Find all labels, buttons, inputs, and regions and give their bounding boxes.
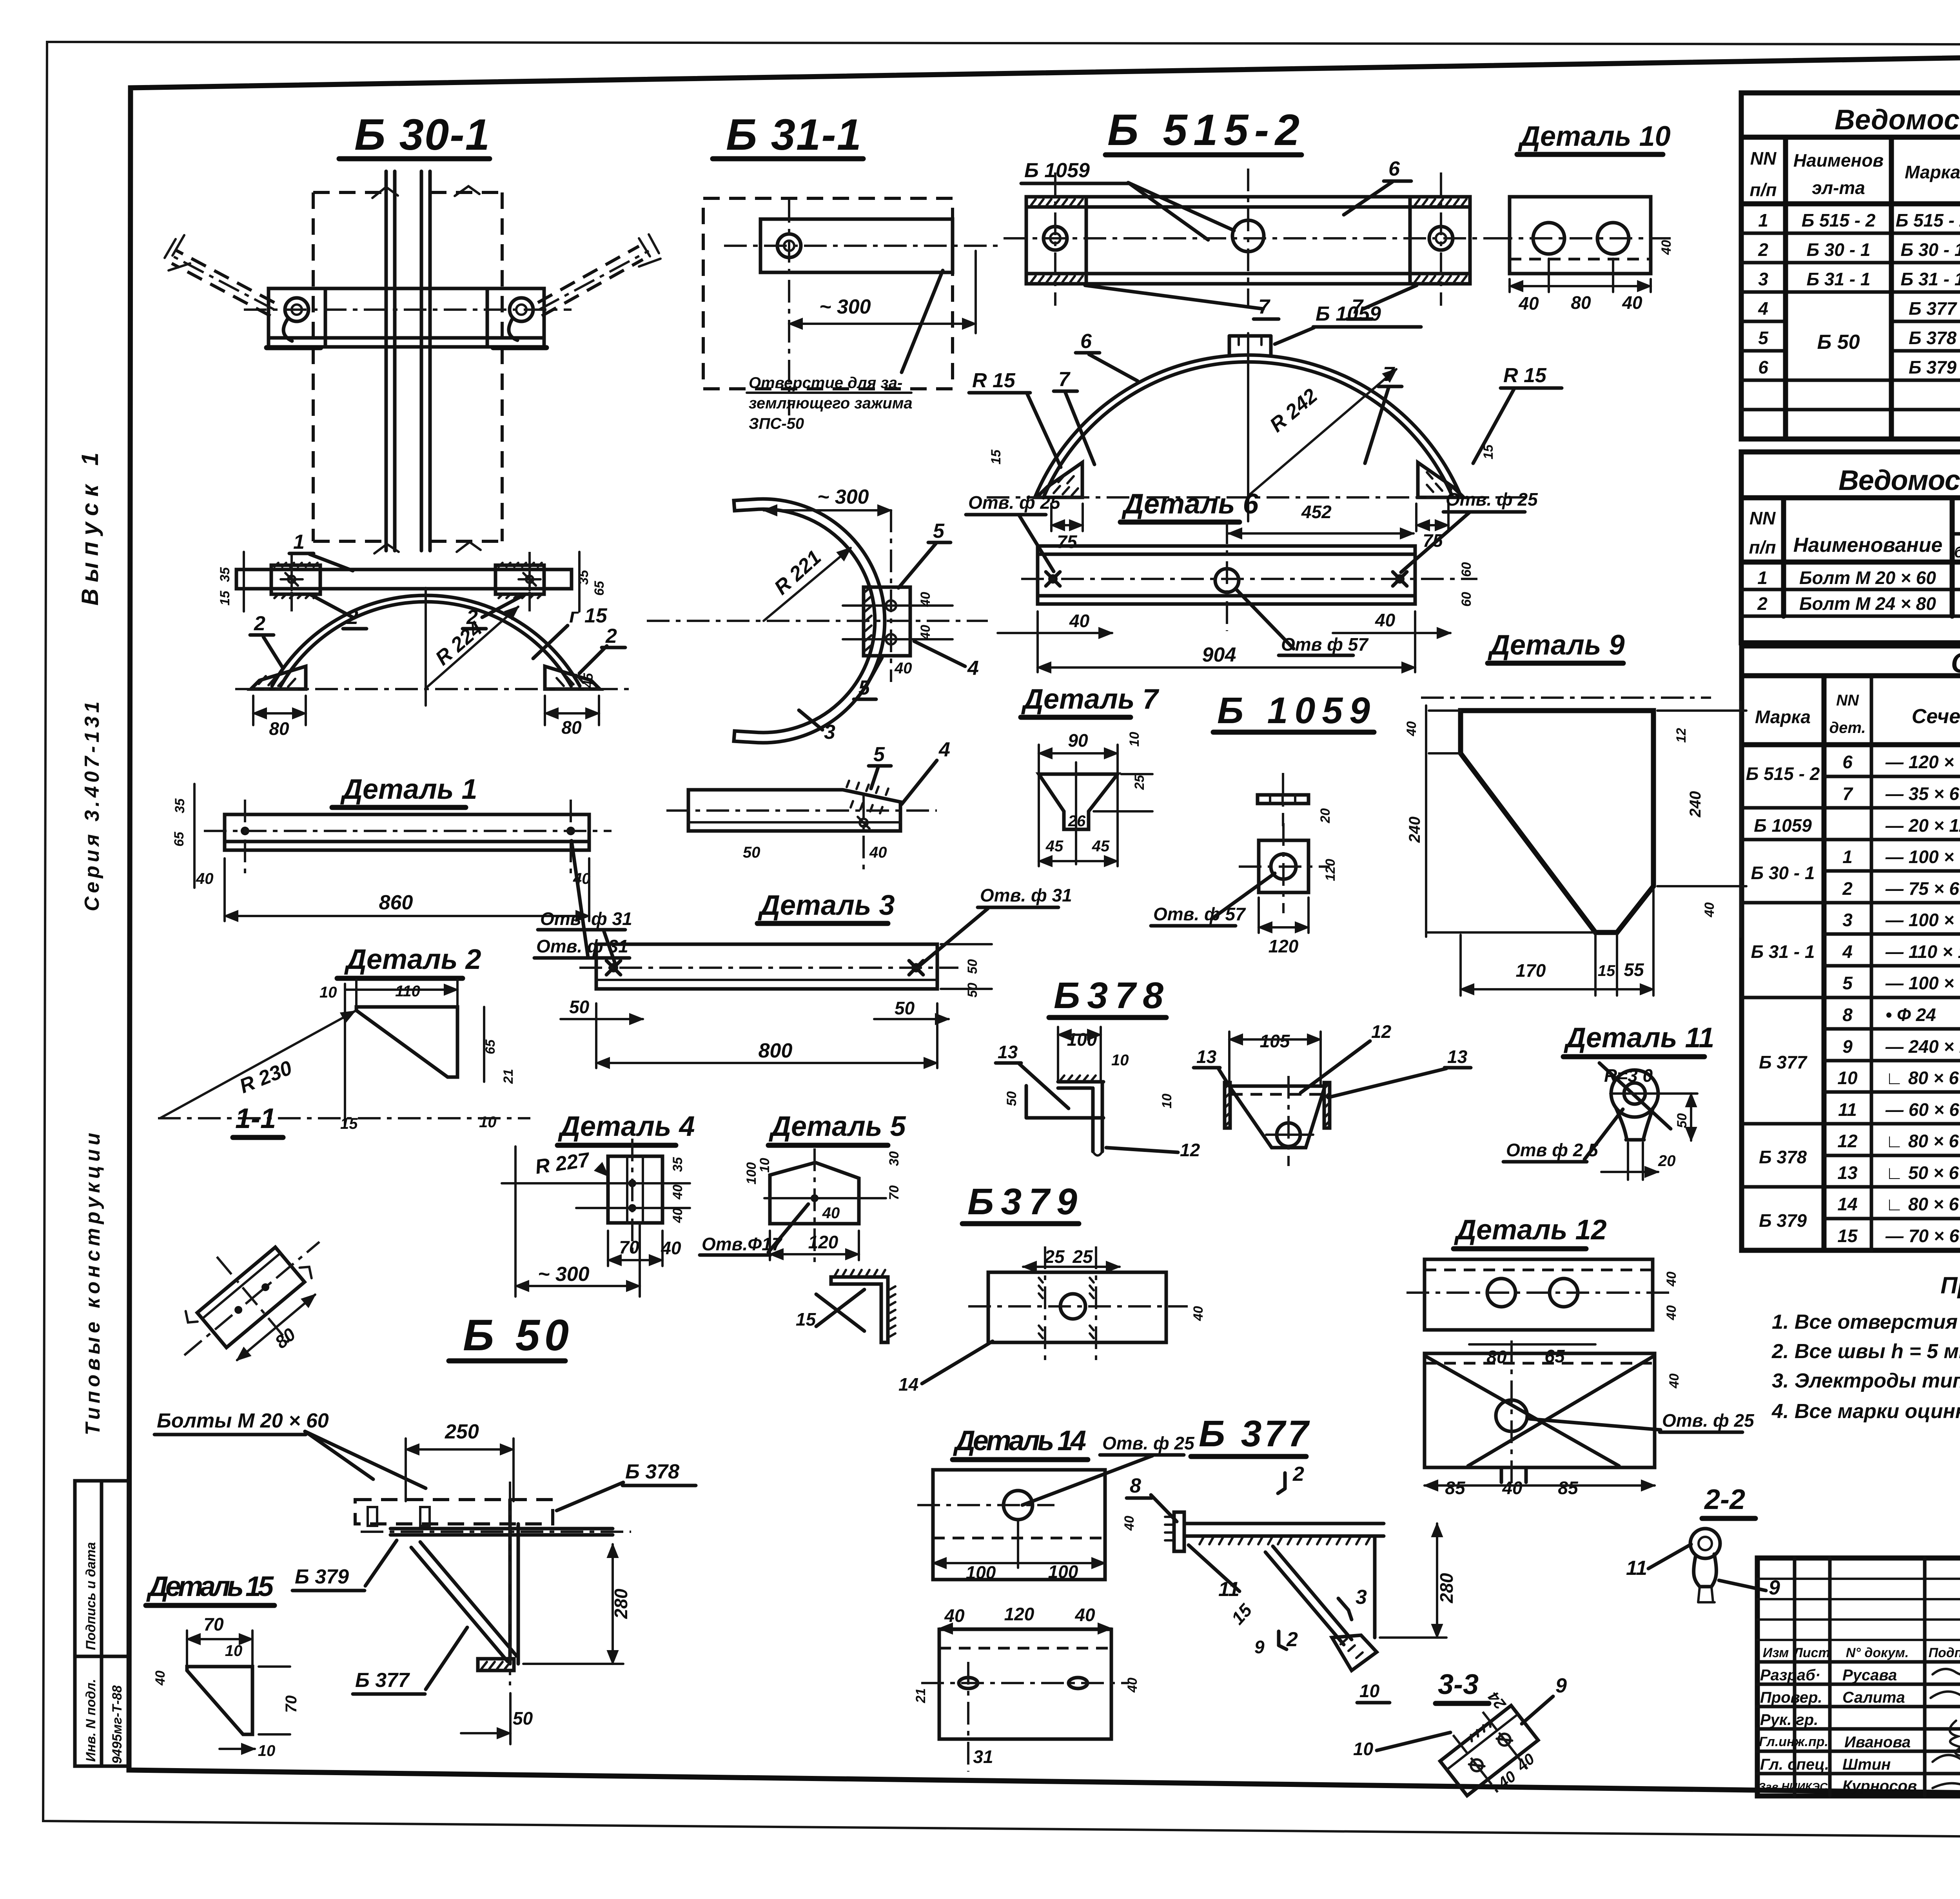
svg-text:Деталь 15: Деталь 15 (146, 1571, 274, 1602)
svg-text:7: 7 (1842, 784, 1853, 804)
svg-text:75: 75 (1423, 530, 1443, 551)
Деталь 2 plate (158, 980, 530, 1132)
svg-text:50: 50 (965, 959, 980, 974)
Б31-1 bar pos.3 (666, 738, 950, 874)
svg-text:1: 1 (1842, 847, 1853, 867)
svg-text:болт.: болт. (1954, 544, 1960, 561)
svg-text:40: 40 (1702, 902, 1717, 918)
svg-text:21: 21 (501, 1069, 516, 1084)
svg-text:85: 85 (1558, 1478, 1579, 1498)
label 1 with leader (289, 531, 353, 571)
svg-text:Б 377: Б 377 (1199, 1413, 1310, 1455)
svg-text:15: 15 (218, 590, 232, 606)
svg-text:12: 12 (1180, 1140, 1200, 1160)
table: Ведомость металлических деталей (1741, 93, 1960, 439)
labels 2 under strap (310, 594, 525, 629)
svg-text:45: 45 (1045, 838, 1063, 855)
svg-text:7: 7 (1383, 363, 1395, 386)
svg-text:Деталь 3: Деталь 3 (757, 890, 895, 921)
Б378 section view (996, 1027, 1200, 1160)
title block (1757, 1558, 1960, 1829)
Б50 assembly (154, 1409, 696, 1744)
Б30-1 strap plan view (218, 552, 607, 611)
1-1 title (233, 1103, 283, 1137)
svg-text:Деталь 7: Деталь 7 (1021, 684, 1160, 715)
svg-text:45: 45 (581, 673, 596, 688)
Деталь 9 plate (1404, 698, 1746, 996)
Деталь 11 title (1563, 1022, 1714, 1057)
svg-text:25: 25 (1072, 1246, 1093, 1267)
svg-text:10: 10 (319, 984, 337, 1001)
svg-text:452: 452 (1301, 502, 1332, 522)
svg-text:40: 40 (1074, 1605, 1095, 1625)
svg-text:— 110 × 10: — 110 × 10 (1885, 941, 1960, 962)
svg-text:40: 40 (1191, 1306, 1206, 1321)
svg-text:∟ 50 × 6: ∟ 50 × 6 (1886, 1163, 1959, 1183)
Отв.Ф31 center label (920, 885, 1072, 965)
svg-text:10: 10 (479, 1114, 497, 1131)
svg-text:70: 70 (203, 1614, 224, 1634)
svg-text:Серия 3.407-131: Серия 3.407-131 (81, 698, 103, 911)
svg-text:280: 280 (1436, 1573, 1457, 1603)
svg-text:40: 40 (1518, 293, 1539, 314)
svg-text:Зав.НИИКЭС: Зав.НИИКЭС (1759, 1781, 1828, 1793)
svg-text:40: 40 (894, 660, 912, 677)
svg-text:Гл.инж.пр.: Гл.инж.пр. (1759, 1734, 1828, 1749)
svg-text:1: 1 (293, 531, 305, 553)
svg-text:60: 60 (1459, 592, 1474, 607)
svg-text:Подпись: Подпись (1929, 1645, 1960, 1660)
svg-text:4: 4 (938, 738, 950, 761)
Б515-2 label Б1059 left (1021, 159, 1234, 240)
svg-text:Б 31-1: Б 31-1 (726, 110, 861, 159)
svg-text:9: 9 (1254, 1637, 1265, 1657)
svg-text:40: 40 (1622, 292, 1642, 313)
svg-text:Иванова: Иванова (1844, 1734, 1911, 1751)
svg-text:40: 40 (153, 1670, 168, 1686)
left margin stamp boxes (75, 1481, 129, 1766)
svg-text:40: 40 (822, 1204, 840, 1222)
svg-text:1: 1 (1758, 210, 1768, 230)
svg-text:170: 170 (1516, 960, 1546, 981)
svg-text:5: 5 (1842, 973, 1853, 993)
Б30-1 right diagonal brace (dashed) (538, 234, 661, 316)
svg-text:904: 904 (1202, 644, 1236, 666)
svg-text:— 100 × 6: — 100 × 6 (1885, 910, 1960, 930)
svg-text:~ 300: ~ 300 (817, 486, 869, 508)
svg-text:Б 378: Б 378 (625, 1460, 679, 1483)
svg-text:10: 10 (1111, 1052, 1129, 1069)
Деталь 10 plate (1490, 197, 1674, 314)
svg-text:50: 50 (965, 983, 980, 998)
svg-text:5: 5 (873, 743, 885, 766)
svg-text:50: 50 (895, 998, 915, 1018)
svg-text:40: 40 (918, 592, 933, 607)
svg-text:Деталь 5: Деталь 5 (768, 1111, 906, 1142)
svg-text:40: 40 (1404, 721, 1419, 736)
svg-text:860: 860 (379, 891, 413, 914)
svg-text:Б 515 - 2: Б 515 - 2 (1802, 210, 1876, 230)
svg-text:Б 515 - 2: Б 515 - 2 (1896, 210, 1960, 230)
Б30-1 pole (column) verticals (372, 171, 481, 553)
svg-text:Деталь 4: Деталь 4 (557, 1111, 695, 1142)
svg-text:Ведомость монтажных болтов: Ведомость монтажных болтов (1838, 465, 1960, 496)
svg-text:Б 379: Б 379 (1759, 1210, 1807, 1231)
svg-text:10: 10 (258, 1742, 276, 1759)
svg-text:Разраб·: Разраб· (1760, 1667, 1820, 1684)
Деталь 4 plate (502, 1139, 690, 1297)
svg-text:35: 35 (670, 1157, 685, 1172)
svg-text:Отв. ф 31: Отв. ф 31 (540, 909, 632, 929)
svg-text:— 70 × 6: — 70 × 6 (1885, 1226, 1959, 1246)
svg-text:6: 6 (1842, 752, 1853, 772)
svg-text:— 240 × 10: — 240 × 10 (1885, 1036, 1960, 1057)
Деталь 7 funnel (1039, 730, 1152, 866)
svg-text:ᴦ 15: ᴦ 15 (569, 604, 608, 627)
spec table row rules (1742, 776, 1960, 1219)
svg-text:13: 13 (1837, 1163, 1858, 1183)
Деталь 3 title (757, 890, 895, 923)
svg-text:Подпись и дата: Подпись и дата (83, 1542, 98, 1650)
Деталь 2 title (337, 944, 481, 978)
Деталь 11 eye plate (1503, 1063, 1697, 1180)
svg-text:80: 80 (1571, 292, 1591, 313)
svg-text:50: 50 (1004, 1091, 1019, 1106)
svg-text:250: 250 (445, 1420, 479, 1443)
svg-text:Гл. спец.: Гл. спец. (1760, 1756, 1829, 1773)
Деталь 14 plate 1 (917, 1433, 1195, 1583)
svg-text:— 100 × 6: — 100 × 6 (1885, 973, 1960, 993)
svg-text:п/п: п/п (1749, 537, 1776, 557)
svg-text:50: 50 (569, 997, 590, 1017)
svg-text:65: 65 (592, 580, 607, 596)
svg-text:13: 13 (998, 1042, 1018, 1062)
svg-text:25: 25 (1044, 1246, 1065, 1267)
svg-text:Отв. ф 25: Отв. ф 25 (1102, 1433, 1195, 1453)
svg-text:105: 105 (1260, 1031, 1290, 1051)
Б30-1 dashed column outline (313, 192, 502, 541)
svg-text:90: 90 (1068, 730, 1088, 751)
svg-text:Болт М 20 × 60: Болт М 20 × 60 (1799, 568, 1936, 588)
svg-text:Деталь 14: Деталь 14 (953, 1425, 1086, 1456)
Деталь 7 title (1021, 684, 1160, 717)
svg-text:Изм: Изм (1763, 1645, 1789, 1660)
svg-text:2. Все швы h = 5 мм: 2. Все швы h = 5 мм (1771, 1340, 1960, 1363)
Деталь 12 plate 2 (1425, 1340, 1755, 1498)
Деталь 15 title (146, 1571, 274, 1605)
svg-text:∟ 80 × 6: ∟ 80 × 6 (1886, 1068, 1959, 1088)
svg-text:NN: NN (1836, 692, 1859, 709)
svg-text:Б 377: Б 377 (1759, 1052, 1808, 1072)
svg-text:26: 26 (1068, 813, 1086, 830)
svg-text:Деталь 10: Деталь 10 (1517, 121, 1671, 152)
svg-text:40: 40 (1069, 611, 1090, 631)
svg-text:Б 30-1: Б 30-1 (354, 110, 490, 159)
svg-text:Б 377: Б 377 (355, 1669, 410, 1692)
svg-text:Б 377: Б 377 (1909, 298, 1958, 319)
svg-text:Б 515 - 2: Б 515 - 2 (1746, 764, 1820, 784)
title Б 1059 (1213, 690, 1374, 732)
Б30-1 left diagonal brace (dashed) (165, 235, 274, 316)
svg-text:Марка: Марка (1755, 707, 1811, 727)
Б377 assembly (1127, 1463, 1457, 1759)
left margin vertical text: Выпуск 1 (77, 446, 103, 606)
svg-text:Отв. ф 25: Отв. ф 25 (968, 492, 1061, 513)
title Б 515-2 (1105, 105, 1301, 155)
svg-text:40: 40 (661, 1238, 681, 1258)
svg-text:70: 70 (619, 1237, 639, 1257)
svg-text:15: 15 (1837, 1226, 1858, 1246)
svg-text:15: 15 (1598, 962, 1615, 979)
Деталь 14 title (953, 1425, 1088, 1460)
svg-text:10: 10 (1353, 1739, 1374, 1759)
svg-text:40: 40 (1659, 240, 1674, 255)
svg-text:100: 100 (744, 1162, 759, 1184)
svg-text:13: 13 (1447, 1047, 1468, 1067)
svg-text:35: 35 (172, 798, 187, 813)
svg-text:40: 40 (918, 625, 933, 640)
svg-text:8: 8 (1842, 1005, 1853, 1025)
svg-text:Рук. гр.: Рук. гр. (1760, 1711, 1818, 1729)
svg-text:Деталь 2: Деталь 2 (344, 944, 481, 975)
Деталь 9 title (1487, 629, 1625, 663)
svg-text:25: 25 (1132, 774, 1147, 790)
svg-text:~ 300: ~ 300 (819, 296, 871, 318)
svg-text:3: 3 (1356, 1586, 1367, 1609)
svg-text:Б 31 - 1: Б 31 - 1 (1751, 941, 1815, 962)
svg-text:Наименов: Наименов (1793, 150, 1884, 170)
svg-text:75: 75 (1057, 531, 1078, 552)
Деталь 1 title (332, 774, 477, 807)
svg-text:70: 70 (283, 1696, 300, 1713)
svg-text:40: 40 (1502, 1478, 1523, 1498)
svg-text:R=3 0: R=3 0 (1604, 1065, 1653, 1086)
svg-text:14: 14 (898, 1374, 918, 1395)
svg-text:8: 8 (1130, 1475, 1141, 1497)
svg-text:20: 20 (1658, 1152, 1676, 1170)
Деталь 12 title (1454, 1214, 1607, 1249)
svg-text:45: 45 (1092, 838, 1110, 855)
svg-text:3-3: 3-3 (1438, 1669, 1479, 1700)
svg-text:ЗПС-50: ЗПС-50 (749, 415, 804, 432)
Б1059 square plate (1151, 823, 1338, 956)
svg-text:20: 20 (1318, 808, 1333, 823)
svg-text:11: 11 (1626, 1557, 1647, 1580)
svg-text:Отв. ф 25: Отв. ф 25 (1446, 489, 1538, 510)
svg-text:Б 30 - 1: Б 30 - 1 (1751, 863, 1815, 883)
svg-text:21: 21 (913, 1688, 928, 1703)
svg-text:40: 40 (1667, 1373, 1682, 1389)
svg-text:эл-та: эл-та (1812, 178, 1865, 198)
svg-text:3. Электроды типа Э42А: 3. Электроды типа Э42А (1772, 1369, 1960, 1392)
svg-text:Ведомость металлических дета: Ведомость металлических деталей (1835, 104, 1960, 136)
svg-text:2: 2 (1758, 239, 1768, 260)
svg-text:120: 120 (1269, 936, 1299, 956)
Б30-1 centerline through clamp (244, 308, 572, 311)
Б30-1 saddle arc (R224) (235, 588, 631, 739)
svg-text:Б 378: Б 378 (1759, 1147, 1807, 1167)
svg-text:50: 50 (513, 1708, 533, 1729)
Б379 corner angle (796, 1270, 895, 1342)
svg-text:40: 40 (1664, 1305, 1679, 1320)
svg-text:Б 31 - 1: Б 31 - 1 (1901, 269, 1960, 289)
svg-text:Деталь 6: Деталь 6 (1121, 488, 1259, 520)
svg-text:Б 379: Б 379 (295, 1565, 349, 1588)
svg-text:10: 10 (1359, 1681, 1380, 1701)
Б378 plan view (1194, 1021, 1471, 1166)
svg-text:N° докум.: N° докум. (1846, 1645, 1909, 1660)
svg-text:85: 85 (1445, 1478, 1466, 1498)
svg-text:15: 15 (989, 449, 1004, 464)
Деталь 6 labels (966, 488, 1538, 572)
svg-text:Б 1059: Б 1059 (1754, 815, 1812, 836)
svg-text:15: 15 (1481, 444, 1496, 459)
Деталь 14 plate 2 (913, 1604, 1140, 1772)
Деталь 5 title (768, 1111, 906, 1145)
svg-text:40: 40 (1664, 1271, 1679, 1287)
svg-text:6: 6 (1080, 330, 1092, 353)
svg-text:— 20 × 120: — 20 × 120 (1885, 815, 1960, 836)
svg-text:800: 800 (759, 1039, 793, 1062)
Б515-2 label 6 right (1344, 158, 1411, 215)
svg-text:Курносов: Курносов (1842, 1777, 1917, 1795)
svg-text:5: 5 (1758, 328, 1769, 348)
Б30-1 clamp body (267, 288, 546, 348)
svg-text:Болт М 24 × 80: Болт М 24 × 80 (1799, 593, 1936, 614)
svg-text:100: 100 (1067, 1029, 1097, 1050)
svg-text:Деталь 1: Деталь 1 (340, 774, 477, 805)
svg-text:2: 2 (1286, 1628, 1298, 1651)
svg-text:Болты М 20 × 60: Болты М 20 × 60 (157, 1409, 329, 1432)
svg-text:40: 40 (1122, 1516, 1137, 1531)
table: Ведомость монтажных болтов (1741, 452, 1960, 643)
svg-text:~ 300: ~ 300 (538, 1263, 590, 1286)
svg-text:Марка: Марка (1905, 162, 1960, 182)
svg-text:2: 2 (605, 625, 617, 648)
svg-text:40: 40 (1375, 610, 1396, 630)
table: Спецификация (1742, 646, 1960, 1250)
svg-text:2: 2 (1292, 1463, 1304, 1485)
Б31-1 dashed body (703, 198, 998, 432)
Деталь 1 bar (172, 784, 630, 958)
svg-text:3: 3 (824, 721, 835, 744)
svg-text:Инв. N подл.: Инв. N подл. (83, 1679, 98, 1762)
svg-text:40: 40 (196, 870, 214, 887)
svg-text:Б 50: Б 50 (1817, 331, 1860, 354)
svg-text:п/п: п/п (1750, 180, 1777, 200)
3-3 section (1427, 1669, 1567, 1812)
svg-text:240: 240 (1687, 791, 1704, 818)
svg-text:50: 50 (743, 844, 760, 861)
notes Примечания (1771, 1272, 1960, 1423)
svg-text:Б 30 - 1: Б 30 - 1 (1901, 239, 1960, 260)
svg-text:Отверстие для за-: Отверстие для за- (749, 374, 902, 392)
svg-text:50: 50 (1675, 1113, 1690, 1128)
svg-text:10: 10 (225, 1642, 243, 1660)
svg-text:Штин: Штин (1842, 1756, 1891, 1773)
svg-text:40: 40 (869, 844, 887, 861)
svg-text:4: 4 (1758, 298, 1768, 319)
svg-text:3: 3 (1842, 910, 1853, 930)
svg-text:2: 2 (1757, 593, 1768, 614)
svg-text:Типовые конструкции: Типовые конструкции (82, 1129, 104, 1435)
title Б 377 (1191, 1413, 1310, 1456)
svg-text:110: 110 (395, 983, 420, 1000)
title Б378 (1049, 975, 1166, 1018)
svg-text:NN: NN (1750, 148, 1777, 169)
svg-text:Сечение: Сечение (1912, 705, 1960, 728)
svg-text:— 60 × 6: — 60 × 6 (1885, 1099, 1959, 1120)
svg-text:земляющего зажима: земляющего зажима (749, 395, 913, 412)
svg-text:Выпуск 1: Выпуск 1 (77, 446, 103, 606)
title Б379 (962, 1181, 1079, 1224)
svg-text:Б 30 - 1: Б 30 - 1 (1807, 239, 1871, 260)
2-2 section (1626, 1484, 1780, 1602)
svg-text:2: 2 (1842, 878, 1853, 899)
svg-text:1-1: 1-1 (235, 1103, 276, 1134)
svg-text:15: 15 (796, 1309, 817, 1329)
svg-text:120: 120 (1004, 1604, 1034, 1624)
Деталь 10 title (1517, 121, 1671, 154)
svg-text:Б 378: Б 378 (1909, 328, 1957, 348)
svg-text:7: 7 (1058, 368, 1071, 391)
svg-text:2: 2 (254, 612, 265, 635)
svg-text:11: 11 (1838, 1099, 1857, 1120)
svg-text:70: 70 (887, 1185, 902, 1200)
svg-text:120: 120 (808, 1232, 838, 1252)
svg-text:∟ 80 × 6: ∟ 80 × 6 (1886, 1131, 1959, 1151)
svg-text:— 120 × 6: — 120 × 6 (1885, 752, 1960, 772)
svg-text:Отв ф 57: Отв ф 57 (1281, 634, 1369, 655)
svg-text:30: 30 (887, 1151, 902, 1166)
svg-text:100: 100 (966, 1562, 996, 1583)
svg-text:60: 60 (1459, 562, 1474, 577)
Деталь 12 plate 1 (1406, 1259, 1679, 1367)
svg-text:Русава: Русава (1842, 1667, 1897, 1684)
Деталь 6 bar (998, 521, 1477, 672)
svg-text:Отв. ф 31: Отв. ф 31 (980, 885, 1072, 905)
Деталь 3 bar (538, 909, 992, 1068)
svg-text:— 35 × 6: — 35 × 6 (1885, 784, 1959, 804)
svg-text:Лист: Лист (1792, 1645, 1830, 1660)
svg-text:Б 379: Б 379 (1909, 357, 1957, 377)
svg-text:R 15: R 15 (972, 369, 1016, 392)
svg-text:R 15: R 15 (1503, 364, 1547, 387)
svg-text:12: 12 (1837, 1131, 1858, 1151)
title Б 31-1 (713, 110, 863, 159)
svg-text:31: 31 (973, 1747, 993, 1767)
svg-text:14: 14 (1837, 1194, 1857, 1214)
svg-text:Деталь 9: Деталь 9 (1487, 629, 1625, 661)
Деталь 4 title (557, 1111, 695, 1145)
svg-text:100: 100 (1048, 1562, 1078, 1582)
svg-text:Отв. ф 31: Отв. ф 31 (536, 936, 628, 956)
svg-text:35: 35 (218, 567, 232, 582)
left margin vertical text: Типовые конструкции (82, 1129, 104, 1435)
svg-text:— 100 × 6: — 100 × 6 (1885, 847, 1960, 867)
title Б 30-1 (339, 110, 490, 159)
svg-text:40: 40 (670, 1184, 685, 1200)
svg-text:Салита: Салита (1842, 1689, 1905, 1706)
title Б 50 (449, 1311, 569, 1361)
svg-text:3: 3 (1758, 269, 1768, 289)
svg-text:13: 13 (1196, 1047, 1217, 1067)
1-1 rotated bracket (149, 1200, 359, 1403)
Б515-2 strap bar (1004, 169, 1497, 319)
svg-text:Б 1059: Б 1059 (1024, 159, 1090, 182)
svg-text:Отв. ф 57: Отв. ф 57 (1153, 904, 1246, 924)
svg-text:80: 80 (269, 718, 289, 739)
